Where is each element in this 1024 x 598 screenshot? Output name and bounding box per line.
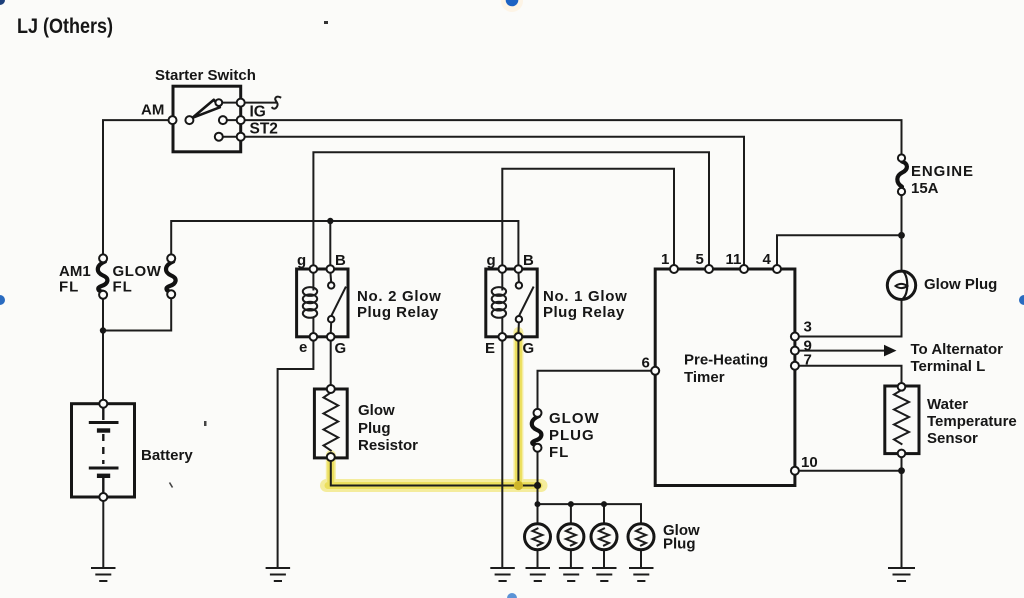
wire: No.2 relay e to ground bbox=[278, 340, 314, 568]
relay no.1 coil bbox=[492, 272, 506, 334]
timer right pin labels bbox=[801, 319, 818, 472]
relay no.2 pin labels bbox=[297, 252, 346, 357]
wire: AM1 FL to battery bbox=[102, 298, 104, 404]
junction: GLOW PLUG FL / highlighted wire bbox=[534, 482, 541, 489]
wire: pin 4 to fuse node bbox=[777, 235, 902, 266]
glow plug 1 bbox=[525, 524, 551, 550]
glow plug 2 bbox=[558, 524, 584, 550]
svg-text:IG: IG bbox=[250, 104, 266, 121]
wire: GLOW FL bottom to junction bbox=[103, 298, 171, 331]
ground: No.1 relay E bbox=[491, 568, 514, 581]
svg-text:B: B bbox=[523, 252, 534, 269]
svg-text:1: 1 bbox=[661, 251, 669, 268]
timer top pin labels bbox=[661, 251, 772, 268]
ground: battery bbox=[92, 568, 115, 581]
wire: glow plug 1 drop bbox=[537, 504, 539, 523]
wire: branch to No.2 relay B bbox=[329, 221, 331, 266]
wire: No.2 relay G to glow plug resistor bbox=[330, 340, 332, 386]
relay no.1 contact bbox=[516, 271, 534, 334]
wire: ST2 line to timer pin 11 bbox=[241, 137, 744, 266]
water temperature sensor box bbox=[885, 386, 919, 454]
wire: glow plug 2 drop bbox=[570, 504, 572, 523]
svg-text:Temperature: Temperature bbox=[927, 413, 1017, 430]
glow plug resistor terminals bbox=[327, 385, 335, 461]
svg-text:ENGINE: ENGINE bbox=[911, 163, 974, 180]
relay no.2 contact bbox=[328, 271, 346, 334]
wire: timer pin 6 to GLOW PLUG FL bbox=[538, 371, 652, 409]
svg-text:FL: FL bbox=[113, 279, 133, 296]
wire: IG line to ENGINE fuse bbox=[241, 120, 902, 154]
svg-text:Glow: Glow bbox=[358, 402, 395, 419]
relay no.1 box bbox=[486, 269, 537, 337]
fusible link GLOW FL bbox=[166, 254, 176, 298]
svg-text:No. 1 Glow: No. 1 Glow bbox=[543, 288, 628, 305]
wire: plug 3 to ground bbox=[603, 550, 605, 568]
break squiggle symbol bbox=[272, 97, 280, 109]
battery terminals bbox=[99, 400, 107, 501]
wire: glow plug 3 drop bbox=[603, 504, 605, 523]
starter switch lever bbox=[193, 100, 220, 118]
wire: plug 4 to ground bbox=[640, 550, 642, 568]
svg-text:Pre-Heating: Pre-Heating bbox=[684, 352, 768, 369]
ground: glow plug 3 bbox=[593, 568, 616, 581]
ground: glow plug 4 bbox=[630, 568, 653, 581]
fusible link AM1 FL bbox=[98, 254, 108, 298]
page marker dot left bbox=[0, 295, 5, 305]
junction: feed at plug 3 bbox=[601, 501, 607, 507]
junction: fuse line / pin 4 bbox=[898, 232, 905, 239]
junction: sensor/pin10 bbox=[898, 467, 905, 474]
svg-text:Glow Plug: Glow Plug bbox=[924, 276, 997, 293]
svg-text:Timer: Timer bbox=[684, 369, 725, 386]
svg-text:Plug Relay: Plug Relay bbox=[543, 304, 625, 321]
svg-text:Plug Relay: Plug Relay bbox=[357, 304, 439, 321]
svg-text:To Alternator: To Alternator bbox=[911, 341, 1004, 358]
glow plug 3 bbox=[591, 524, 617, 550]
svg-text:No. 2 Glow: No. 2 Glow bbox=[357, 288, 442, 305]
svg-text:Sensor: Sensor bbox=[927, 430, 978, 447]
svg-text:11: 11 bbox=[726, 251, 742, 268]
svg-text:G: G bbox=[335, 340, 347, 357]
svg-text:AM: AM bbox=[141, 102, 164, 119]
wire: glow plug feed line bbox=[538, 504, 642, 523]
svg-text:5: 5 bbox=[696, 251, 704, 268]
wire: sensor bottom to pin 10 and ground bbox=[799, 457, 902, 569]
relay no.2 terminals g B e G bbox=[310, 265, 335, 340]
svg-text:7: 7 bbox=[804, 352, 812, 369]
water temperature sensor zigzag bbox=[894, 390, 909, 444]
water temperature sensor terminals bbox=[898, 383, 906, 457]
wire: battery to ground bbox=[102, 501, 104, 569]
svg-text:B: B bbox=[335, 252, 346, 269]
svg-text:FL: FL bbox=[549, 444, 569, 461]
svg-text:Plug: Plug bbox=[358, 420, 391, 437]
glow plug resistor box bbox=[314, 389, 347, 458]
junction AM1/GLOW FL bbox=[100, 327, 106, 333]
junction: feed at plug 1 bbox=[535, 501, 541, 507]
wire: fuse to glow plug lamp bbox=[901, 195, 903, 270]
ground: No.2 relay e bbox=[267, 568, 290, 581]
svg-text:Battery: Battery bbox=[141, 447, 193, 464]
wire: resistor bottom to junction (under yellow) bbox=[331, 460, 538, 486]
svg-text:AM1: AM1 bbox=[59, 263, 91, 280]
wire: No.1 relay E to ground bbox=[501, 340, 503, 568]
svg-text:GLOW: GLOW bbox=[113, 263, 162, 280]
svg-text:Resistor: Resistor bbox=[358, 437, 418, 454]
wire: AM from starter switch to AM1 FL bbox=[103, 120, 173, 254]
wire: No.1 relay g to timer pin 1 bbox=[502, 169, 674, 266]
stray tick mark left of feed bbox=[170, 483, 173, 488]
svg-text:4: 4 bbox=[763, 251, 772, 268]
fusible link GLOW PLUG FL bbox=[532, 409, 542, 452]
wire: plug 2 to ground bbox=[570, 550, 572, 568]
arrowhead to alternator bbox=[884, 345, 897, 357]
page marker dot bottom bbox=[507, 593, 517, 598]
wire: B feed from GLOW FL to both relays bbox=[171, 221, 518, 266]
junction: yellow highlighted node bbox=[514, 481, 523, 490]
relay no.1 terminals g B E G bbox=[499, 265, 523, 340]
wire: pin 9 to alternator arrow bbox=[799, 350, 884, 352]
fuse ENGINE 15A bbox=[897, 154, 907, 195]
junction: feed at plug 2 bbox=[568, 501, 574, 507]
wire: plug 1 to ground bbox=[537, 550, 539, 568]
page marker dot right bbox=[1019, 295, 1024, 305]
svg-text:FL: FL bbox=[59, 279, 79, 296]
svg-text:10: 10 bbox=[801, 454, 818, 471]
relay no.2 coil bbox=[303, 272, 317, 334]
page marker dot top bbox=[506, 0, 519, 6]
wire: unlabeled stub with break squiggle from top contact bbox=[241, 102, 276, 104]
svg-text:LJ (Others): LJ (Others) bbox=[17, 15, 113, 39]
svg-text:G: G bbox=[523, 340, 535, 357]
starter switch contact stubs bbox=[219, 103, 237, 137]
wire: No.2 relay g to timer pin 5 bbox=[313, 152, 709, 266]
glow plug 4 bbox=[628, 524, 654, 550]
wire: lamp bottom to pin 3 bbox=[799, 300, 902, 337]
pre-heating timer box bbox=[655, 269, 795, 486]
ground: water temp sensor bbox=[889, 568, 914, 581]
svg-text:15A: 15A bbox=[911, 180, 939, 197]
svg-text:3: 3 bbox=[804, 319, 812, 336]
starter switch SW box bbox=[173, 86, 241, 152]
stray mark near top bbox=[324, 21, 328, 24]
relay no.1 pin labels bbox=[485, 252, 534, 357]
svg-text:Starter Switch: Starter Switch bbox=[155, 67, 256, 84]
svg-text:E: E bbox=[485, 340, 495, 357]
timer pins 3 9 7 10 (right) bbox=[791, 333, 799, 475]
timer pin 6 (left) bbox=[651, 367, 659, 375]
stray mark near battery bbox=[204, 421, 207, 426]
battery box bbox=[72, 404, 135, 497]
ground: glow plug 2 bbox=[560, 568, 583, 581]
timer pins 1 5 11 4 (top) bbox=[670, 265, 781, 273]
page marker halo top bbox=[501, 0, 523, 12]
svg-text:e: e bbox=[299, 339, 307, 356]
starter switch contact terminals bbox=[169, 99, 245, 141]
svg-text:Plug: Plug bbox=[663, 536, 696, 553]
glow plug indicator lamp bbox=[887, 271, 915, 300]
svg-text:ST2: ST2 bbox=[250, 121, 278, 138]
wire: GLOW PLUG FL bottom to feed bbox=[537, 452, 539, 505]
svg-text:PLUG: PLUG bbox=[549, 427, 595, 444]
junction on B feed bbox=[327, 218, 333, 224]
ground: glow plug 1 bbox=[527, 568, 550, 581]
wire: pin 7 to water temp sensor bbox=[799, 366, 902, 383]
corner speck top-left bbox=[0, 0, 5, 5]
svg-text:Terminal L: Terminal L bbox=[911, 358, 986, 375]
highlighted net: No.1 relay G to glow plug feed (yellow marker) bbox=[327, 332, 542, 487]
svg-text:g: g bbox=[297, 252, 306, 269]
svg-text:GLOW: GLOW bbox=[549, 410, 600, 427]
svg-text:Water: Water bbox=[927, 396, 968, 413]
battery cell symbol bbox=[89, 407, 119, 494]
svg-text:6: 6 bbox=[642, 355, 650, 372]
glow plug resistor zigzag bbox=[324, 393, 339, 451]
relay no.2 box bbox=[297, 269, 348, 337]
svg-text:g: g bbox=[487, 252, 496, 269]
wire: No.1 relay G down to highlighted junction bbox=[517, 340, 519, 486]
